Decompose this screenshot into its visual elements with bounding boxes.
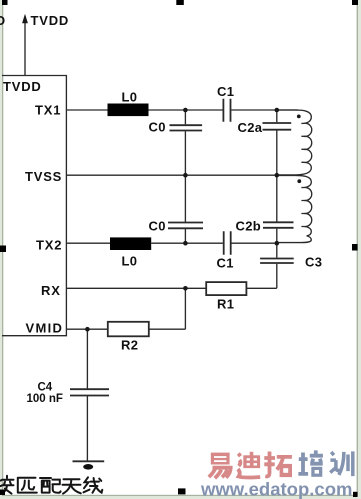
node TX1/C0a	[183, 108, 188, 113]
wire RX row	[66, 287, 276, 289]
watermark logo 培 (blue)	[298, 450, 323, 476]
coil phase dot lower	[297, 179, 301, 183]
watermark logo 拓 (red)	[264, 452, 292, 478]
capacitor C1 (TX1)	[223, 99, 230, 122]
svg-text:C2b: C2b	[236, 219, 261, 234]
node TX2/C2b	[275, 241, 280, 246]
wire C4 branch	[86, 329, 88, 461]
capacitor C1 (TX2)	[224, 231, 231, 255]
node VMID/C4	[85, 327, 90, 332]
capacitor C4	[70, 389, 109, 395]
svg-text:TVSS: TVSS	[25, 169, 62, 184]
resistor R1	[206, 282, 246, 295]
inductor L0 (TX2)	[110, 237, 151, 250]
text 接 (partially cut)	[0, 476, 14, 494]
IC U1 chip outline	[2, 76, 66, 336]
text 线	[84, 477, 103, 493]
capacitor C0 (TX2)	[168, 223, 203, 229]
node RX/R1	[183, 286, 188, 291]
svg-text:www.edatop.com: www.edatop.com	[200, 479, 352, 499]
capacitor C2b	[263, 222, 294, 228]
antenna coil upper section	[277, 110, 312, 175]
node TX2/C0b	[183, 241, 188, 246]
power arrow TVDD	[22, 14, 28, 23]
capacitor C0 (TX1)	[170, 125, 203, 130]
svg-text:L0: L0	[122, 254, 138, 269]
svg-text:D: D	[0, 13, 6, 28]
svg-text:RX: RX	[41, 283, 61, 298]
wire RX to R2 vertical	[184, 288, 186, 329]
wire TVDD supply line	[24, 22, 26, 76]
inductor L0 (TX1)	[108, 104, 149, 117]
resistor R2	[108, 322, 149, 337]
svg-text:R1: R1	[217, 297, 234, 312]
svg-text:C2a: C2a	[238, 120, 263, 135]
node TVSS/C0	[183, 173, 188, 178]
antenna coil lower section	[277, 175, 312, 242]
wire C0a branch	[184, 110, 186, 175]
svg-text:C0: C0	[149, 219, 166, 234]
svg-text:TX2: TX2	[36, 238, 62, 253]
svg-text:C1: C1	[217, 256, 234, 271]
node TX1/C2a	[275, 108, 280, 113]
text 配	[40, 478, 61, 493]
wire TX2	[66, 242, 277, 244]
svg-text:C4: C4	[38, 382, 53, 394]
svg-text:TVDD: TVDD	[31, 13, 70, 28]
svg-text:C3: C3	[305, 255, 322, 270]
text 天	[63, 479, 81, 493]
watermark logo 易 (red)	[209, 453, 231, 479]
coil phase dot upper	[297, 115, 301, 119]
watermark logo 迪 (red)	[238, 452, 260, 478]
wire VMID	[66, 328, 185, 330]
svg-text:C1: C1	[217, 84, 234, 99]
wire C0b branch	[184, 175, 186, 243]
antenna terminal dot	[83, 464, 93, 470]
svg-text:TVDD: TVDD	[3, 79, 42, 94]
wire TVSS	[66, 174, 298, 176]
svg-text:100 nF: 100 nF	[27, 393, 63, 405]
svg-text:R2: R2	[121, 338, 138, 353]
capacitor C2a	[263, 123, 292, 130]
svg-text:L0: L0	[122, 90, 138, 105]
svg-text:C0: C0	[149, 119, 166, 134]
node TVSS/C2	[275, 173, 280, 178]
svg-text:VMID: VMID	[26, 321, 64, 336]
wire C2 branch vertical	[276, 110, 278, 288]
wire TX1	[66, 109, 298, 111]
svg-text:TX1: TX1	[35, 103, 61, 118]
watermark logo 训 (blue)	[330, 451, 353, 476]
text 匹	[18, 478, 37, 493]
antenna terminal bar	[73, 460, 105, 462]
capacitor C3	[260, 259, 294, 264]
